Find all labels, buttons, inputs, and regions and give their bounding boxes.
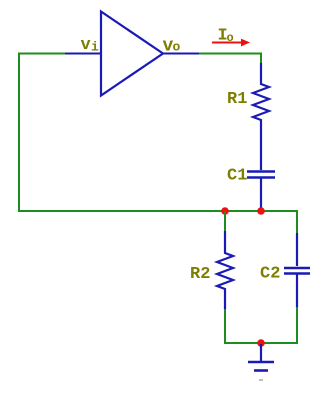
- svg-text:C2: C2: [260, 265, 280, 284]
- svg-text:o: o: [173, 40, 181, 55]
- svg-text:R1: R1: [227, 90, 247, 109]
- node C junction dot: [257, 339, 265, 347]
- node B junction dot: [257, 207, 265, 215]
- wire: C2 bottom lead (green): [296, 307, 298, 343]
- capacitor C1: [247, 170, 275, 173]
- current arrow Io (red): [212, 42, 243, 44]
- svg-text:C1: C1: [227, 167, 247, 186]
- svg-text:i: i: [91, 40, 99, 55]
- ground: [260, 344, 262, 361]
- wire: R2 bottom lead (green): [224, 309, 226, 343]
- wire: R2 top lead (green): [224, 211, 226, 232]
- capacitor C2: [296, 233, 298, 266]
- resistor R1: [253, 63, 269, 170]
- wire: input lead to amplifier (blue): [65, 53, 101, 55]
- wire: C2 top lead (green): [296, 210, 298, 234]
- svg-text:v: v: [81, 36, 91, 55]
- wire: bottom horizontal (green): [224, 342, 298, 344]
- svg-text:R2: R2: [190, 265, 210, 284]
- wire: feedback loop left (top horizontal, left vertical, long bottom horizontal): [19, 54, 297, 212]
- resistor R2: [217, 231, 233, 310]
- op-amp U1 (buffer triangle): [101, 12, 163, 96]
- wire: output to R1 branch (green): [199, 54, 261, 65]
- wire: output lead (blue): [163, 53, 200, 55]
- node A junction dot: [221, 207, 229, 215]
